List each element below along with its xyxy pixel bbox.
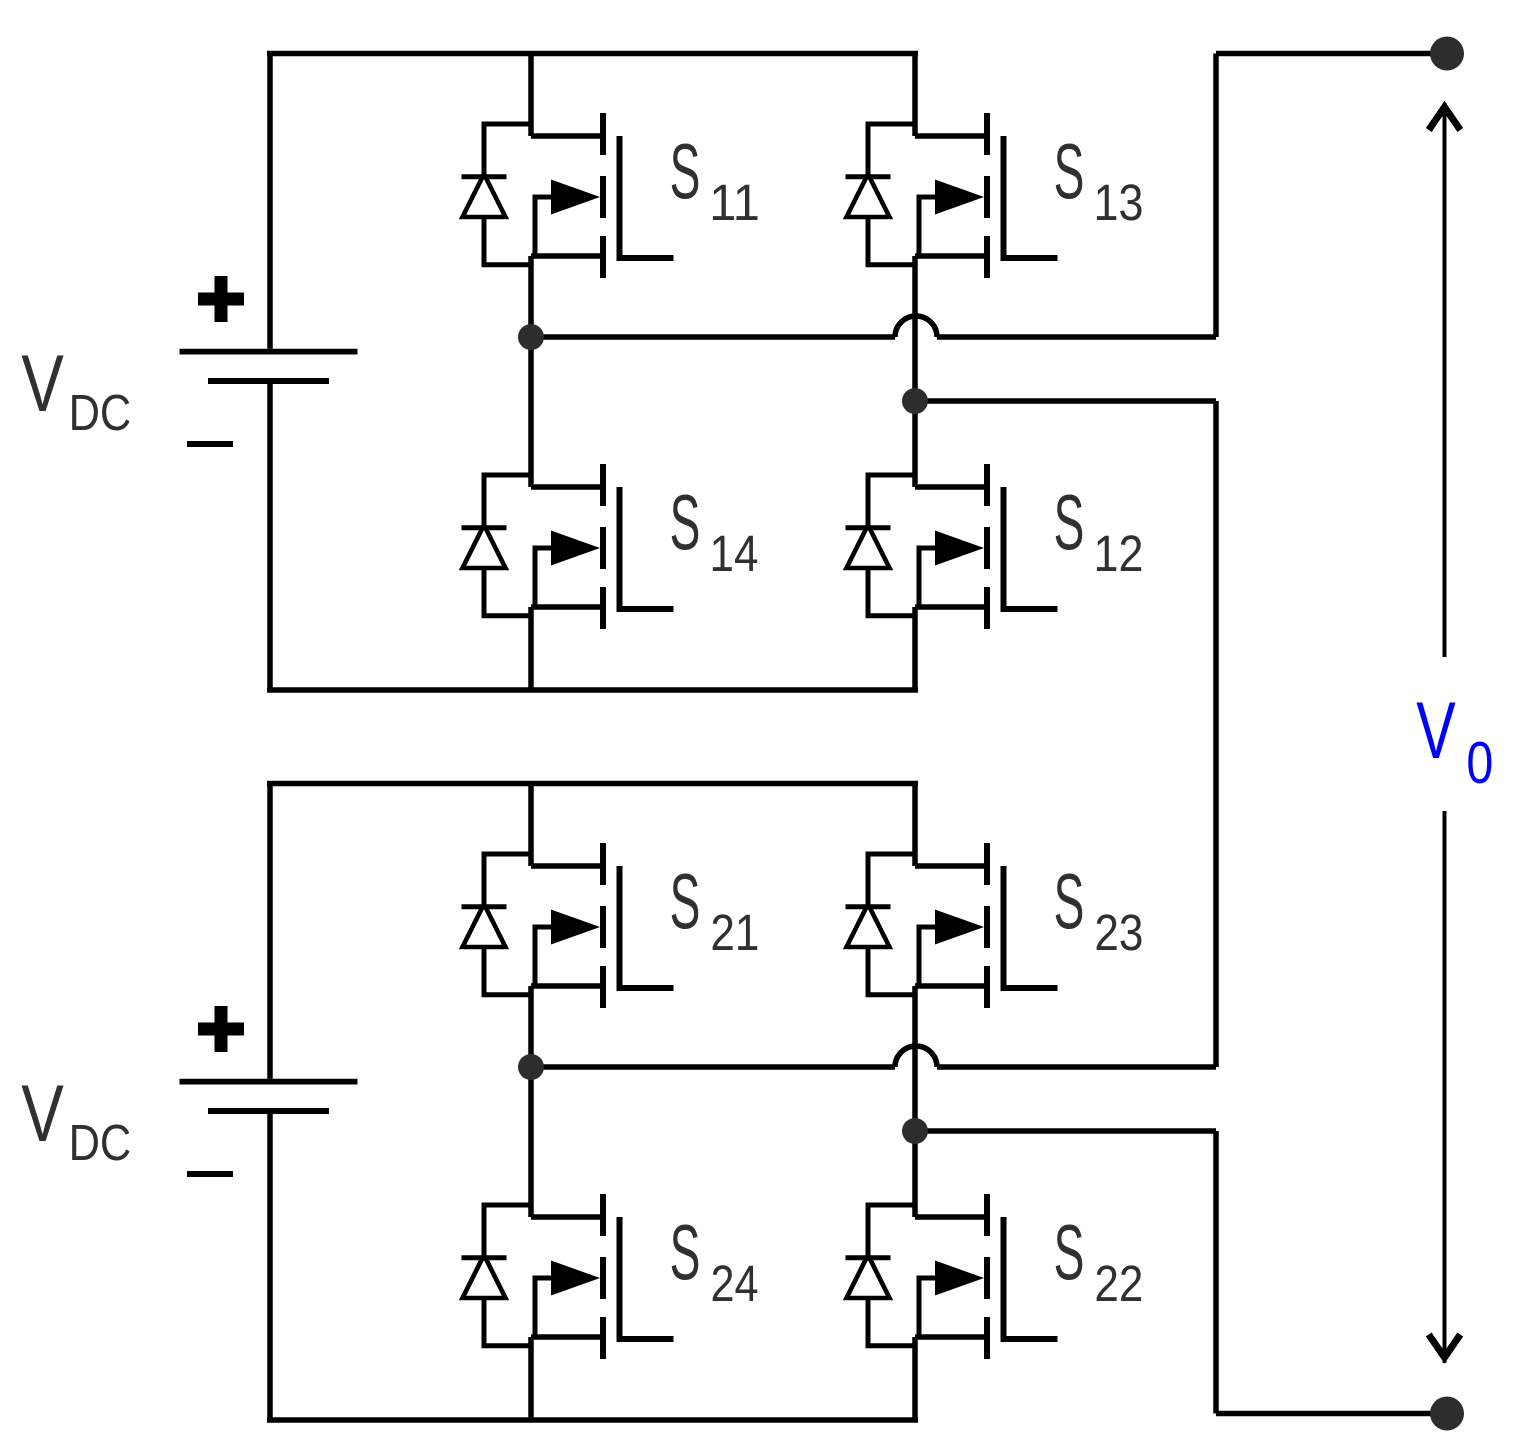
svg-text:13: 13 [1094,175,1144,231]
svg-text:DC: DC [69,385,132,442]
svg-text:S: S [670,1208,701,1296]
svg-text:S: S [670,857,701,945]
svg-text:V: V [21,1069,64,1159]
svg-text:22: 22 [1094,1256,1143,1313]
svg-text:S: S [670,127,701,215]
svg-text:S: S [670,478,701,566]
svg-text:23: 23 [1094,905,1143,962]
svg-text:14: 14 [710,526,759,583]
svg-text:24: 24 [711,1256,759,1313]
svg-text:0: 0 [1466,731,1493,797]
svg-text:S: S [1054,1208,1085,1296]
svg-text:21: 21 [710,905,759,962]
svg-text:S: S [1054,478,1085,566]
svg-text:V: V [21,339,64,429]
svg-text:S: S [1054,857,1085,945]
svg-text:12: 12 [1094,526,1144,582]
svg-text:DC: DC [69,1115,132,1172]
svg-text:S: S [1054,127,1085,215]
svg-text:11: 11 [709,174,760,231]
svg-text:V: V [1416,686,1455,776]
